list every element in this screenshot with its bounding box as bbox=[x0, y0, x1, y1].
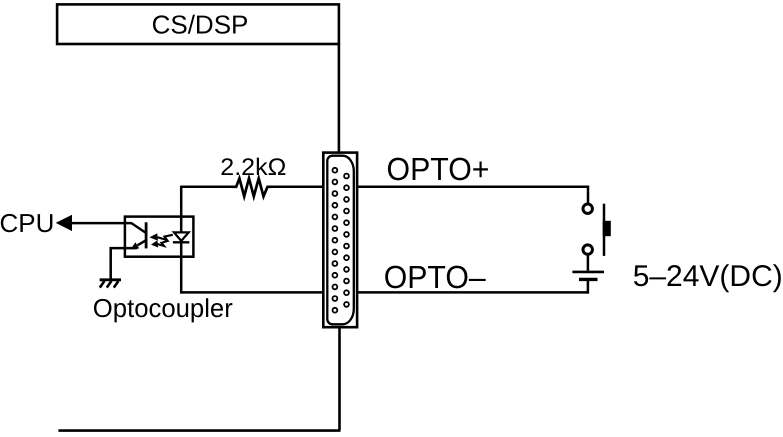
wire OPTO+ line (resistor row, passes under connector) bbox=[181, 186, 588, 189]
arrowhead to CPU bbox=[56, 215, 72, 231]
wire lower rail (bottom edge) bbox=[58, 429, 340, 432]
wire battery to OPTO- rail bbox=[586, 281, 588, 294]
connector J1 shell (D-sub outline) bbox=[327, 156, 354, 325]
svg-text:OPTO–: OPTO– bbox=[384, 259, 486, 295]
wire OPTO- line (bottom row, passes under connector) bbox=[181, 291, 588, 294]
resistor R1 2.2k zigzag bbox=[232, 178, 272, 196]
switch S1 terminal lower bbox=[583, 245, 592, 254]
svg-text:CPU: CPU bbox=[0, 208, 54, 238]
ground symbol bbox=[100, 280, 121, 288]
battery BT1 bbox=[572, 272, 604, 280]
svg-text:CS/DSP: CS/DSP bbox=[152, 10, 249, 40]
label OPTO- bbox=[384, 259, 486, 295]
wire OPTO+ corner down to switch bbox=[587, 187, 588, 204]
switch S1 plunger and button bbox=[603, 204, 611, 256]
wire connector bottom to lower rail bbox=[338, 328, 341, 431]
switch S1 terminal upper bbox=[583, 204, 592, 213]
label 5-24V(DC) bbox=[633, 260, 783, 293]
label OPTO+ bbox=[387, 151, 490, 187]
LED D1 inside optocoupler bbox=[173, 232, 189, 242]
connector J1 pins (25 holes) bbox=[333, 168, 349, 313]
wire CS/DSP to connector top bbox=[338, 44, 341, 152]
optocoupler U1 box bbox=[125, 217, 193, 257]
svg-text:2.2kΩ: 2.2kΩ bbox=[220, 154, 286, 181]
phototransistor Q1 (base bar, collector, emitter with arrow) bbox=[131, 222, 147, 249]
label Optocoupler bbox=[93, 293, 233, 323]
light arrow upper (LED to transistor) bbox=[149, 233, 173, 240]
wire CPU line bbox=[70, 222, 132, 225]
wire switch to battery bbox=[587, 254, 590, 270]
wire node A vertical (resistor left end down through optocoupler to OPTO- line) bbox=[180, 186, 183, 294]
light arrow lower (LED to transistor) bbox=[151, 240, 169, 247]
svg-text:OPTO+: OPTO+ bbox=[387, 151, 490, 187]
wire emitter to ground bbox=[111, 248, 137, 279]
label 2.2kOhm bbox=[220, 154, 286, 181]
label CPU bbox=[0, 208, 54, 238]
svg-text:5–24V(DC): 5–24V(DC) bbox=[633, 260, 783, 293]
svg-text:Optocoupler: Optocoupler bbox=[93, 293, 233, 323]
connector J1 body bbox=[323, 153, 357, 328]
block CS/DSP bbox=[57, 4, 339, 44]
